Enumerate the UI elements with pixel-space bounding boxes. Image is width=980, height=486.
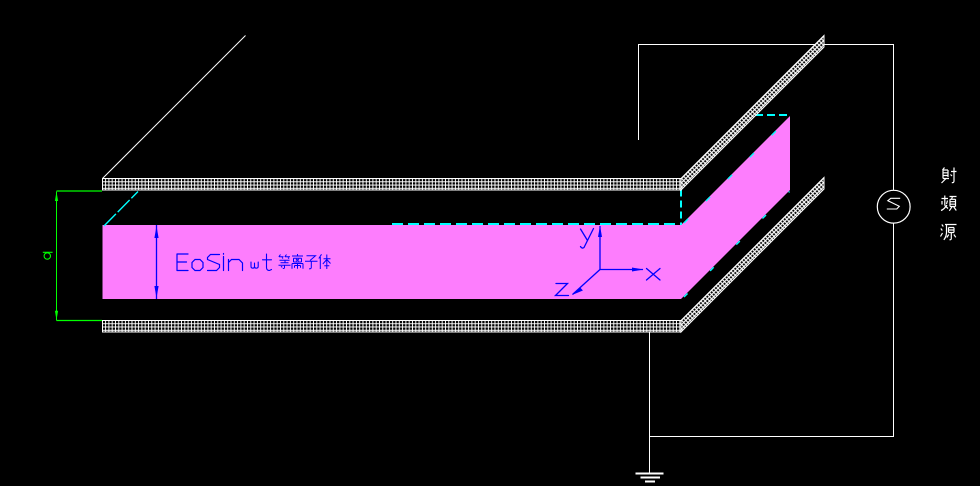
wire top horizontal to RF source: [638, 44, 894, 46]
z axis: [573, 270, 601, 295]
E-field double arrow: [154, 225, 158, 299]
label EoSin (CAD stroke letters, blue): [177, 254, 243, 271]
bottom plate right side face (hatched band): [681, 178, 824, 333]
axis label x: [647, 269, 661, 281]
射: [942, 168, 957, 184]
wire from bottom plate down to ground: [649, 332, 651, 474]
label 等离子体 (hand-drawn strokes, blue): [279, 254, 331, 269]
wire right vertical down to RF source: [893, 44, 895, 191]
label 射频源 (hand-drawn strokes, white): [941, 168, 957, 240]
hidden edge (cyan) slab side bottom diagonal: [684, 192, 790, 298]
RF source S symbol: [887, 198, 900, 209]
top plate rear-left edge: [103, 36, 246, 179]
wire from RF source down: [893, 223, 895, 437]
top electrode plate front face (mesh): [103, 179, 682, 191]
hidden edge (cyan) slab side top diagonal: [684, 118, 790, 224]
axis label y: [581, 229, 594, 249]
hidden edge (cyan) slab rear top edge: [755, 114, 790, 116]
源: [941, 225, 957, 240]
ground symbol: [636, 474, 664, 482]
x axis: [600, 269, 643, 271]
plasma slab front face: [103, 225, 682, 299]
top plate right side face (hatched band): [681, 36, 824, 191]
dimension label d (rotated): [43, 252, 53, 259]
y axis: [599, 226, 601, 270]
dimension d line (green): [56, 192, 58, 321]
wire bottom horizontal: [649, 436, 894, 438]
hidden edge (cyan) vertical at slab front-right corner: [680, 190, 682, 226]
label omega-t (blue): [251, 254, 272, 271]
wire from top plate up (left vertical segment): [638, 44, 640, 140]
dimension d extension line bottom (green): [57, 320, 103, 322]
dimension arrow top: [55, 192, 58, 202]
coordinate axes (blue): [572, 226, 644, 296]
axis label z: [556, 284, 569, 296]
频: [941, 196, 957, 211]
RF source circle: [877, 190, 910, 223]
hidden edge (cyan) slab rear-left: [104, 192, 138, 227]
dimension d extension line top (green): [57, 190, 103, 192]
bottom electrode plate front face (mesh): [103, 321, 682, 333]
plasma slab right side face: [681, 116, 790, 299]
hidden edge (cyan) along slab top right part: [392, 223, 681, 225]
dimension arrow bottom: [55, 311, 58, 321]
